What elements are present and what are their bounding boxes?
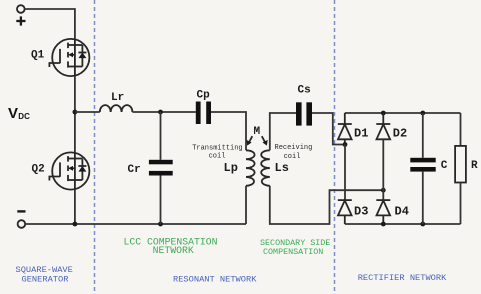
svg-text:coil: coil (284, 153, 301, 161)
capacitor Cr branch wire bottom (160, 176, 162, 225)
svg-text:Receiving: Receiving (275, 144, 313, 152)
svg-text:D4: D4 (395, 205, 409, 219)
capacitor Cr branch wire top (160, 112, 162, 160)
wire + terminal to Q1 drain (25, 9, 75, 39)
transistor Q1 (49, 39, 89, 76)
resistor R branch wire top (460, 113, 462, 146)
svg-text:V: V (8, 105, 18, 122)
label Receiving coil (275, 144, 313, 161)
svg-text:Ls: Ls (275, 161, 289, 175)
section label: SECONDARY SIDE COMPENSATION (260, 238, 330, 257)
svg-text:RECTIFIER NETWORK: RECTIFIER NETWORK (358, 273, 447, 283)
svg-text:R: R (471, 160, 478, 172)
diode D3 (338, 200, 352, 224)
svg-text:DC: DC (18, 112, 30, 121)
svg-text:M: M (254, 126, 261, 138)
section label: LCC COMPENSATION NETWORK (124, 237, 218, 256)
wire bottom rail (- terminal to primary loop) (25, 223, 246, 225)
wire D1 anode to D3 cathode (344, 145, 346, 201)
node: D2 cathode junction (381, 111, 386, 116)
capacitor C branch wire top (422, 113, 424, 158)
node: C top junction (420, 111, 425, 116)
node: Cr bottom junction (158, 222, 163, 227)
node: AC1 junction at D1/D3 (343, 142, 348, 147)
wire Lp bottom to rail (245, 186, 247, 224)
wire Cs to D1/D3 node (312, 113, 343, 145)
svg-text:Lr: Lr (111, 92, 124, 104)
rectifier top rail (345, 112, 461, 114)
capacitor C branch wire bottom (422, 172, 424, 224)
resistor R (455, 146, 466, 183)
svg-text:COMPENSATION: COMPENSATION (263, 247, 323, 257)
svg-text:Q1: Q1 (31, 50, 45, 62)
svg-text:Lp: Lp (224, 161, 238, 175)
svg-text:Transmitting: Transmitting (192, 144, 242, 152)
diode D1 (338, 113, 352, 145)
transistor Q2 (49, 152, 89, 189)
separator dashed line 2 (resonant / rectifier boundary) (334, 0, 336, 294)
svg-text:coil: coil (209, 152, 226, 160)
resistor R branch wire bottom (460, 183, 462, 225)
node: AC2 junction at D2/D4 (381, 188, 386, 193)
separator dashed line 1 (generator / resonant boundary) (94, 0, 96, 294)
wire Q2 source to bottom rail (74, 190, 76, 225)
mutual inductance M with arrows (246, 126, 267, 146)
svg-text:D1: D1 (354, 127, 368, 141)
wire Q1 source to Q2 drain (74, 76, 76, 153)
diode D4 (376, 200, 390, 224)
svg-text:Cr: Cr (128, 164, 141, 176)
wire D2 anode to D4 cathode (382, 139, 384, 200)
svg-text:GENERATOR: GENERATOR (22, 274, 69, 284)
svg-text:Cp: Cp (197, 90, 211, 102)
node: Q2 source junction (73, 222, 78, 227)
svg-text:D2: D2 (393, 127, 407, 141)
svg-text:RESONANT NETWORK: RESONANT NETWORK (173, 274, 257, 284)
coil Ls (receiving) (261, 150, 270, 186)
wire Ls bottom to D2/D4 node (270, 186, 384, 224)
capacitor Cp (196, 102, 211, 125)
node: bridge midpoint junction (73, 110, 78, 115)
inductor Lr (100, 105, 133, 112)
svg-text:Q2: Q2 (32, 163, 45, 175)
terminal - (negative DC input) (17, 211, 25, 227)
node: Cr top junction (158, 110, 163, 115)
node: C bottom junction (420, 222, 425, 227)
svg-text:Cs: Cs (298, 85, 311, 97)
svg-text:NETWORK: NETWORK (153, 245, 194, 256)
wire Lr to Cp (through node) (132, 111, 195, 113)
coil Lp (transmitting) (246, 150, 255, 186)
wire Ls top to Cs (270, 113, 296, 150)
terminal + (positive DC input) (16, 5, 25, 25)
section label: SQUARE-WAVE GENERATOR (16, 265, 73, 284)
svg-text:C: C (441, 160, 448, 172)
capacitor Cs (296, 102, 312, 125)
svg-text:D3: D3 (354, 205, 368, 219)
diode D2 (376, 113, 390, 139)
wire Cp to Lp (primary loop top) (211, 112, 246, 150)
capacitor Cr (149, 160, 173, 176)
wire junction to Lr (75, 111, 100, 113)
label VDC (source voltage) (8, 105, 30, 122)
rectifier bottom rail (345, 223, 461, 225)
capacitor C (410, 158, 435, 172)
node: D4 anode junction (381, 222, 386, 227)
label Transmitting coil (192, 144, 242, 160)
